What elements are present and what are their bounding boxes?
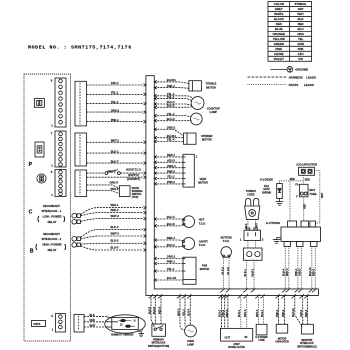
svg-text:BLU-2: BLU-2 [218,309,221,317]
svg-text:PNK: PNK [298,47,305,51]
HV transformer T1 [281,227,321,242]
svg-text:MOTOR: MOTOR [202,138,212,142]
svg-text:CORD: CORD [247,192,255,196]
wire BLU-10 to fan motor [154,279,183,281]
humidity sensor section [84,314,145,337]
wire YEL-4 to lamp2 [154,116,191,117]
HV diode D1 [277,184,283,199]
legend parts leads [248,84,288,86]
hood tco label [126,169,141,181]
bottom tco label [221,237,232,244]
svg-text:SHRINK: SHRINK [262,191,271,194]
svg-text:YELLOW: YELLOW [273,37,285,41]
wire cap right to transformer [315,171,320,223]
svg-text:RED-2: RED-2 [313,268,316,276]
svg-text:RED-1: RED-1 [111,203,120,207]
label C [29,209,33,215]
svg-text:BLU-2: BLU-2 [227,266,230,274]
svg-text:ORG-6: ORG-6 [110,181,119,185]
line fuse block [243,248,262,260]
fan motor M3 [183,257,196,284]
svg-text:): ) [64,243,66,250]
svg-text:BLK-1: BLK-1 [238,309,241,317]
wire RED-2 from relay RY1 [81,213,143,216]
svg-text:TUBE: TUBE [309,192,316,196]
wires to motor capacitor [278,295,280,324]
svg-text:SWITCH(BOTTOM): SWITCH(BOTTOM) [148,345,169,348]
wire RED-1 from relay RY1 [81,208,143,215]
wire BLU-5 from relay RY2 [81,246,143,250]
power cord terminal board [244,230,261,240]
svg-text:YEL-1: YEL-1 [182,309,185,316]
svg-text:ORG-2: ORG-2 [299,268,302,276]
small ref box CN70 [32,321,46,327]
svg-text:RED: RED [298,22,304,26]
svg-text:T.C.O: T.C.O [223,240,229,243]
right components [154,78,231,289]
svg-text:VIOLET: VIOLET [274,57,285,61]
svg-text:OUT: OUT [225,335,231,339]
HV section [240,162,324,289]
wire ORG-6 to door switch [87,185,120,189]
wire BLU/11 to stirrer motor [154,137,183,139]
color code table [268,2,312,62]
junction wire down to transformer [289,181,291,221]
svg-text:WHT-3: WHT-3 [111,231,120,235]
door sensing switch [119,186,130,197]
svg-text:WHT-1: WHT-1 [244,309,247,317]
turntable motor M1 [189,81,202,91]
connector CN2 7pin [55,131,66,167]
svg-text:STIRRER: STIRRER [201,134,213,138]
wire WHT-3 from relay RY2 [81,236,143,239]
noise filter assy [221,328,253,341]
svg-text:VIO: VIO [298,57,304,61]
wire YEL-4 to stirrer motor [154,141,183,143]
svg-text:RED-2: RED-2 [305,309,308,317]
monitor interlock switch [302,324,314,334]
svg-text:(40/70°C): (40/70°C) [128,174,139,177]
svg-text:COLOR: COLOR [274,2,284,6]
svg-text:LOW - POWER: LOW - POWER [43,215,62,219]
svg-text:MOTOR: MOTOR [206,85,216,89]
svg-text:RED: RED [305,179,310,182]
wire YEL-1 to fan motor [154,270,183,272]
wire BLK-3 from relay RY2 [81,230,143,238]
primary interlock switch [152,324,166,336]
svg-text:RED-5: RED-5 [158,306,161,314]
wire ORG-2 [87,111,143,113]
harness connector housing 2 [75,133,87,166]
legend harness leads [248,76,288,78]
svg-text:PINK: PINK [275,47,283,51]
svg-text:AZU-2: AZU-2 [222,309,225,317]
svg-text:HIGH / POWER: HIGH / POWER [42,243,61,247]
model number title [28,44,132,50]
wires to oven lamp [180,295,185,330]
oven lamp L3 [185,325,197,337]
svg-text:BLU-3: BLU-3 [111,239,119,243]
HV transformer label [266,221,280,225]
svg-text:GREEN: GREEN [274,42,284,46]
power cord plug prong 1 [246,198,251,206]
svg-text:BLK-2: BLK-2 [221,266,224,274]
sensor ground [137,330,140,333]
svg-text:H.V.CAPACITOR: H.V.CAPACITOR [296,162,317,166]
svg-text:CAPACITOR: CAPACITOR [275,341,289,344]
wire PNK-1 to fan motor [154,263,183,265]
svg-text:INTERLOCK - 2: INTERLOCK - 2 [42,237,62,241]
legend ground symbol [248,66,317,87]
svg-text:SWITCH(MIDDLE): SWITCH(MIDDLE) [297,346,317,348]
svg-text:ORANGE: ORANGE [273,32,286,36]
transformer primary wires to bus [284,247,286,289]
svg-text:CN70: CN70 [33,322,41,326]
svg-text:RED: RED [290,178,295,181]
svg-text:MOTOR: MOTOR [198,180,208,184]
connector CN7 3pin [55,314,65,332]
diode ground [279,199,281,202]
svg-text:WHT-1: WHT-1 [251,268,254,276]
svg-text:H.V.TRANS: H.V.TRANS [266,221,280,225]
svg-text:LEADS: LEADS [306,75,316,79]
wire BLK-1 to bus [246,260,248,289]
svg-text:BLU-10: BLU-10 [292,308,295,317]
svg-text:HOOD T.C.O: HOOD T.C.O [126,169,141,172]
cavity thermal cutout [182,238,194,250]
svg-text:RELAY: RELAY [48,248,57,252]
svg-text:MONITOR: MONITOR [301,340,312,342]
power cord label [246,189,256,196]
wires to noise filter out [221,295,223,328]
svg-text:COOKTOP: COOKTOP [207,106,220,110]
svg-text:WHT: WHT [297,12,304,16]
svg-text:BLACK: BLACK [274,17,285,21]
wire BLK to sensor [84,316,106,318]
bottom thermal cutout [221,247,232,258]
wire YEL-4 to cooktop lamp [154,96,193,99]
svg-text:BLK-1: BLK-1 [244,268,247,276]
svg-text:BLU-6: BLU-6 [188,308,191,316]
wire diode junction [280,180,304,182]
svg-text:): ) [63,215,65,222]
wire WHT-1 to bus [253,260,255,289]
HV capacitor label [296,162,317,166]
svg-text:IN: IN [245,335,248,339]
hot thermal cutout [183,216,195,228]
svg-text:MODEL NO. : SMH7175,7174,7176: MODEL NO. : SMH7175,7174,7176 [28,44,132,50]
wire BLU-4 to hot tco [154,218,184,221]
relay RY2 secondary interlock 2 [72,237,77,242]
wire GRN-1 [87,176,143,178]
svg-text:RELAY: RELAY [48,220,57,224]
svg-text:BLK-4: BLK-4 [261,309,264,317]
svg-text:WHT-1: WHT-1 [256,309,259,317]
svg-text:SECONDARY: SECONDARY [43,232,60,236]
stirrer motor M2 [184,133,197,144]
svg-text:P: P [29,162,33,168]
transformer bottom tabs [284,242,291,247]
arrowheads out of bus right [154,81,157,282]
svg-text:BLK: BLK [90,314,95,317]
svg-text:FAN: FAN [202,263,207,267]
secondary interlock 1 text [42,204,62,224]
svg-text:GRN: GRN [297,42,303,46]
svg-text:GRY: GRY [298,7,304,11]
svg-text:MOTOR: MOTOR [200,267,210,271]
component box icon on PCB [35,142,44,157]
wires to primary interlock switch [151,295,155,328]
svg-text:AZU-6: AZU-6 [300,309,303,317]
wire terminal to fuse 1 [247,241,249,249]
svg-text:MOTOR: MOTOR [278,339,287,341]
hv trans fuse F1 [256,324,267,335]
wire PNK-1 to turntable motor [154,87,189,90]
svg-text:HOT: HOT [199,218,205,222]
wire BLK-2 from bottom tco [223,257,225,289]
wire ORG-1 to stirrer motor [154,129,183,135]
svg-text:RED: RED [276,22,282,26]
connector CN1 8pin [55,78,66,127]
harness connector housing 1 [75,81,87,126]
svg-text:SECONDARY: SECONDARY [43,204,60,208]
wire ORG-4 to vent motor [154,167,183,169]
wire YEL-1 [87,93,143,95]
wire magnetron F to transformer [303,197,305,221]
wire WHT-1 [87,141,143,143]
fuse box icon on PCB [34,99,44,108]
harness connector housing 3 [75,170,87,197]
svg-text:LAMP: LAMP [187,343,194,346]
svg-text:BLU: BLU [298,27,304,31]
svg-text:PARTS: PARTS [289,83,299,87]
svg-text:BLK-3: BLK-3 [111,225,119,229]
svg-text:WHT: WHT [321,192,324,198]
svg-text:BLK: BLK [298,17,305,21]
svg-text:MGT: MGT [309,188,315,192]
wires to hv trans fuse [258,295,260,324]
wire BLU-4 to cavity tco [154,245,183,248]
svg-text:INTERLOCK: INTERLOCK [300,343,314,345]
svg-text:SYMBOL: SYMBOL [295,2,307,6]
bus crossing hooks [149,288,316,298]
svg-text:T/TABLE: T/TABLE [206,82,217,86]
wire RED-2 to hood tco [87,172,105,174]
wire BLU-2 to lamp2 [154,119,191,122]
svg-text:T.C.O: T.C.O [199,222,206,226]
hood thermostat switch [105,170,120,175]
svg-text:AZURE: AZURE [274,52,284,56]
svg-text:(104/158°F): (104/158°F) [127,178,140,181]
svg-text:GREY: GREY [275,7,283,11]
svg-text:RED-2: RED-2 [111,208,120,212]
wire PNK-1 [87,121,143,123]
wire BLU-3 from relay RY2 [81,242,143,245]
power cord plug body [245,206,260,219]
svg-text:HUMIDITY SENSOR: HUMIDITY SENSOR [111,334,134,337]
svg-text:WHT-2: WHT-2 [226,309,229,317]
arrowheads into bus [144,84,147,252]
wire BLU-6 to hot tco [154,224,184,226]
bus bar L-shaped wiring duct [146,76,319,296]
wire BLK from plug [247,219,249,230]
wire cap to magnetron FA [302,175,304,184]
svg-text:WHT-1: WHT-1 [177,308,180,316]
svg-text:ORG-4: ORG-4 [167,164,176,168]
wire BLU-1 [87,152,143,154]
svg-text:RED: RED [303,204,306,209]
wire PNK-3 to vent motor [154,172,183,174]
power cord plug prong 2 [254,198,259,206]
svg-text:ORG: ORG [297,32,304,36]
svg-text:FUSE: FUSE [259,340,266,342]
svg-text:YEL: YEL [298,37,304,41]
circle component icon on PCB [37,174,46,183]
sensor internals [112,318,139,330]
wire PNK-5 to door switch [87,190,120,193]
wire BLU-7 [87,162,143,164]
svg-text:BLU-5: BLU-5 [111,245,119,249]
wire RED to sensor [84,321,106,323]
PCB main box P [24,74,87,341]
wire WHT-2 from relay RY1 [81,219,143,222]
svg-text:INTERLOCK - 1: INTERLOCK - 1 [42,209,62,213]
svg-text:T.C.O: T.C.O [199,243,206,247]
svg-text:BLK-6: BLK-6 [153,306,156,314]
wire RED-1 to vent motor [154,156,183,158]
svg-text:BLUE: BLUE [275,27,283,31]
svg-text:B: B [30,248,34,254]
harness connector housing 4 [74,314,84,332]
wire BLU-2 to cooktop lamp [154,106,192,109]
svg-text:BLK-5: BLK-5 [148,306,151,314]
wire AZU-1 [87,84,143,86]
wire BLU-1 to cooktop lamp [154,104,192,105]
svg-text:WHT-4: WHT-4 [286,268,289,276]
wire terminal to fuse 2 [255,241,257,249]
connector CN3 6pin [55,170,66,197]
lamp L2 [190,113,202,125]
svg-text:FA: FA [295,183,298,186]
svg-text:WHT: WHT [90,324,96,327]
wire YEL-1 to cooktop lamp [154,99,192,101]
label B [30,248,34,254]
relay RY1 secondary interlock 1 [72,213,77,218]
svg-text:RED: RED [90,319,95,322]
wires left [81,81,146,251]
humidity sensor body [105,315,146,333]
BLK heat shrink label [262,185,271,194]
secondary interlock 2 text [42,232,62,252]
cooktop lamp L1 [191,97,204,110]
svg-text:WHITE: WHITE [274,12,283,16]
wire AZU-3 to vent motor [154,161,183,163]
svg-text:LAMP: LAMP [210,110,218,114]
vent motor connector [183,154,194,187]
magnetron MGT [299,184,308,197]
svg-text:GROUND: GROUND [295,68,308,72]
svg-text:H.V.DIODE: H.V.DIODE [260,178,273,181]
svg-text:AZU: AZU [298,52,304,56]
svg-text:C: C [29,209,33,215]
wire YEL-4 [87,103,143,105]
wire BLU/11 to turntable motor [154,82,189,84]
svg-text:(TOP): (TOP) [132,196,139,199]
wire YEL-1 to vent motor [154,178,183,180]
wire BLU-2 from bottom tco [228,257,230,289]
HV diode label [260,178,273,181]
wire WHT to sensor [84,326,106,328]
wires to monitor interlock switch [295,295,303,326]
wire WHT from plug [255,219,257,230]
svg-text:LEADS: LEADS [304,83,314,87]
bottom row [148,288,317,349]
svg-text:H.V.TRANS: H.V.TRANS [255,336,268,339]
svg-text:PNK-3: PNK-3 [282,309,285,317]
svg-text:CAVITY: CAVITY [199,239,209,243]
wire hood tco to bus [120,172,142,174]
svg-text:HARNESS: HARNESS [289,75,303,79]
motor capacitor C2 [276,324,288,333]
wire RED-4 to cavity tco [154,240,183,241]
wire ORG-1 to fan motor [154,258,183,260]
svg-text:NOISE FILTER: NOISE FILTER [228,346,245,349]
transformer ground [277,237,281,239]
svg-text:PNK-3: PNK-3 [276,309,279,317]
svg-text:VENT: VENT [200,177,207,181]
svg-text:WHT-2: WHT-2 [111,214,120,218]
HV capacitor C1 [299,167,315,175]
wires to noise filter in [240,295,242,328]
wire PNK-1 to vent motor [154,183,183,185]
